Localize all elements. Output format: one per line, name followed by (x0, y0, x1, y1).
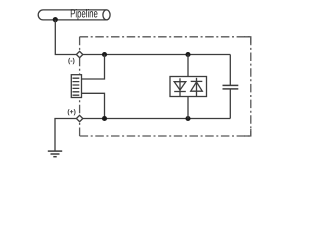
node dot C (bottom rail / cell branch) (102, 116, 107, 121)
enclosure boundary bottom edge (80, 135, 251, 137)
ground symbol (48, 151, 62, 157)
wire pipeline to (-) terminal (55, 20, 76, 55)
wire top rail (-) (83, 54, 231, 56)
label Pipeline (71, 9, 98, 20)
diode V2 (right, cathode up) (191, 78, 203, 97)
wire surge arrester box to bottom rail (187, 97, 189, 119)
enclosure boundary left edge (upper segment) (79, 37, 81, 52)
surge arrester U1 (anti-parallel diode box) (170, 77, 207, 97)
junction dot on pipeline (53, 17, 58, 22)
enclosure boundary right edge (250, 37, 252, 136)
polarization cell E1 (striped box) (71, 75, 81, 98)
node dot D (bottom rail / diode branch) (185, 116, 190, 121)
node dot A (top rail / cell branch) (102, 52, 107, 57)
label (+) (68, 109, 76, 115)
terminal (+) diamond (76, 115, 82, 121)
capacitor C1 (223, 55, 239, 119)
wire cell top to top rail (82, 55, 105, 80)
wire (+) terminal to ground (55, 119, 76, 151)
enclosure boundary (dash-dot) top edge (80, 36, 251, 38)
diode V1 (left, cathode down) (174, 78, 186, 96)
enclosure boundary left edge (lower segment) (79, 122, 81, 136)
enclosure corner mark bottom-right (244, 129, 251, 136)
wire bottom rail (+) (83, 118, 231, 120)
enclosure corner mark top-right (244, 37, 251, 44)
wire top rail to surge arrester box (187, 55, 189, 77)
node dot B (top rail / diode branch) (185, 52, 190, 57)
wire cell bottom to bottom rail (82, 93, 105, 118)
terminal (-) diamond (76, 51, 82, 57)
label (-) (68, 58, 74, 64)
enclosure boundary left edge (mid segment) (79, 58, 81, 116)
pipeline P1 (pipe cylinder symbol) (38, 10, 110, 20)
